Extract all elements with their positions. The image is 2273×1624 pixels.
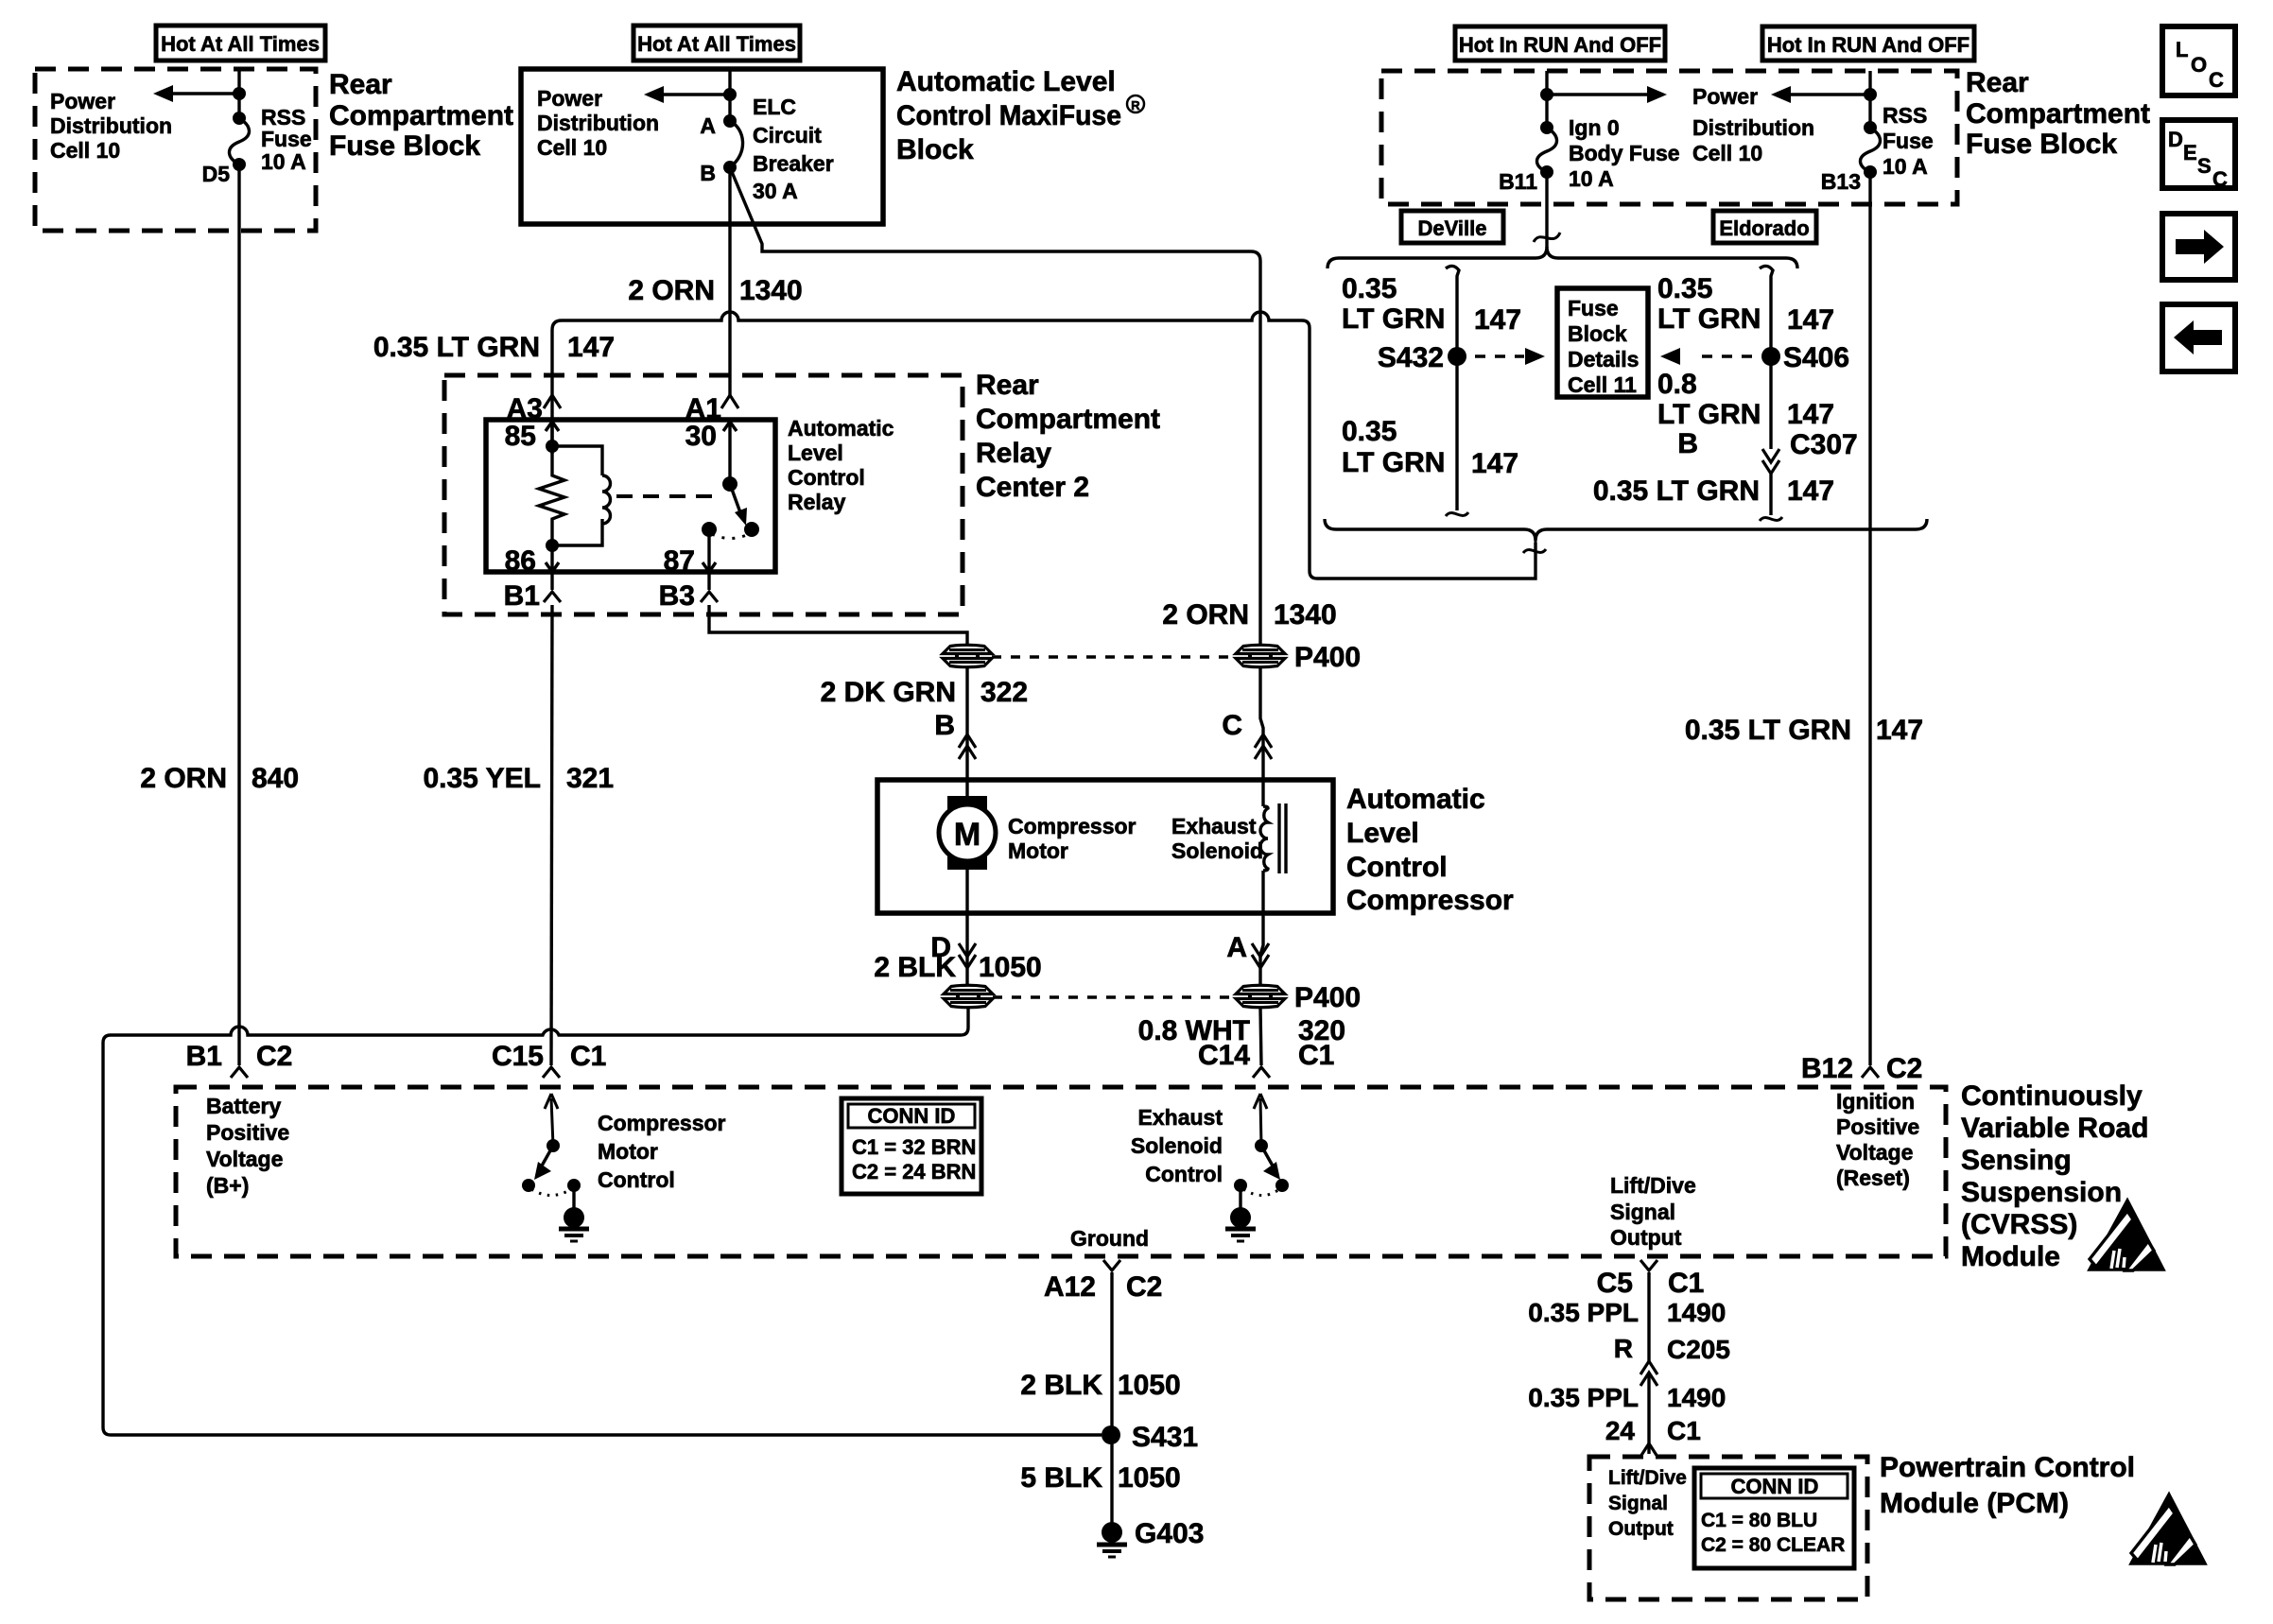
- label box: Eldorado: [1713, 211, 1816, 243]
- svg-text:C1: C1: [1667, 1416, 1701, 1445]
- svg-text:Compressor: Compressor: [1008, 814, 1136, 838]
- svg-text:Rear: Rear: [976, 370, 1039, 401]
- svg-text:S: S: [2197, 154, 2212, 178]
- wire: arrow from B13 to Power Distribution (pointing left): [1788, 93, 1870, 95]
- svg-text:(Reset): (Reset): [1836, 1166, 1910, 1190]
- wire: arrow to Power Distribution (right, pointing right): [1547, 93, 1650, 95]
- svg-text:30: 30: [685, 421, 717, 452]
- svg-text:C2: C2: [256, 1041, 292, 1072]
- svg-text:Level: Level: [1346, 818, 1419, 849]
- svg-text:CONN ID: CONN ID: [1731, 1475, 1819, 1498]
- svg-text:Module (PCM): Module (PCM): [1880, 1488, 2069, 1519]
- svg-text:2 DK GRN: 2 DK GRN: [821, 677, 956, 708]
- svg-text:Breaker: Breaker: [753, 151, 834, 176]
- wire: compressor A to P400: [1260, 913, 1263, 985]
- svg-text:Variable Road: Variable Road: [1961, 1113, 2148, 1144]
- pin A12 / C2 (ground): [1103, 1260, 1120, 1270]
- svg-text:E: E: [2183, 141, 2197, 164]
- svg-text:30 A: 30 A: [753, 179, 798, 203]
- svg-text:B1: B1: [504, 580, 540, 612]
- wire: 0.8 WHT 320 from P400 to CVRSS C14: [1260, 1008, 1261, 1065]
- node: junction dot B11 feed: [1540, 88, 1553, 101]
- svg-text:Automatic Level: Automatic Level: [896, 66, 1116, 97]
- svg-text:147: 147: [1876, 715, 1923, 746]
- dashed arrow S432 to fuse block details: [1475, 354, 1524, 357]
- svg-text:C: C: [1222, 710, 1242, 741]
- svg-text:Output: Output: [1608, 1518, 1674, 1540]
- svg-text:C1 = 80 BLU: C1 = 80 BLU: [1701, 1510, 1817, 1531]
- exhaust solenoid control switch: [1254, 1094, 1267, 1146]
- svg-text:1490: 1490: [1667, 1298, 1726, 1327]
- svg-text:5 BLK: 5 BLK: [1020, 1462, 1102, 1494]
- icon: back arrow box: [2162, 304, 2235, 371]
- svg-text:C205: C205: [1667, 1335, 1730, 1364]
- svg-text:LT GRN: LT GRN: [1342, 447, 1445, 478]
- svg-text:Powertrain Control: Powertrain Control: [1880, 1452, 2135, 1483]
- svg-text:Continuously: Continuously: [1961, 1080, 2143, 1112]
- svg-text:B: B: [934, 710, 955, 741]
- svg-text:Exhaust: Exhaust: [1171, 814, 1257, 838]
- svg-text:Control: Control: [788, 465, 865, 490]
- svg-text:Rear: Rear: [1966, 67, 2029, 98]
- svg-text:D5: D5: [202, 162, 231, 186]
- svg-text:C: C: [2209, 68, 2224, 92]
- dashed connector tie: [992, 655, 1236, 658]
- svg-text:Output: Output: [1610, 1225, 1682, 1250]
- svg-text:(B+): (B+): [206, 1173, 249, 1198]
- svg-text:Cell 11: Cell 11: [1568, 372, 1637, 397]
- node: coil top junction: [546, 440, 559, 453]
- svg-text:Power: Power: [50, 89, 115, 113]
- icon: LOC box: [2162, 26, 2235, 95]
- wire: 2 BLK 1050 to S431: [1110, 1272, 1113, 1435]
- svg-text:B13: B13: [1821, 169, 1861, 194]
- icon: forward arrow box: [2162, 214, 2235, 280]
- wire: DeVille branch 0.35 LT GRN 147: [1446, 266, 1459, 510]
- svg-text:R: R: [1614, 1334, 1633, 1363]
- svg-text:Motor: Motor: [598, 1139, 658, 1164]
- svg-text:M: M: [954, 817, 980, 853]
- label box: DeVille: [1401, 211, 1503, 243]
- svg-text:C2: C2: [1886, 1053, 1922, 1084]
- svg-text:C1: C1: [570, 1041, 606, 1072]
- resistor (relay coil suppression): [539, 446, 564, 545]
- svg-text:C15: C15: [492, 1041, 544, 1072]
- svg-text:87: 87: [664, 545, 695, 577]
- label box: Hot In RUN And OFF (left): [1455, 26, 1665, 60]
- svg-text:147: 147: [1474, 304, 1521, 336]
- svg-text:1490: 1490: [1667, 1383, 1726, 1412]
- svg-text:Relay: Relay: [788, 490, 846, 514]
- wire: 0.35 PPL 1490 to PCM: [1647, 1373, 1650, 1454]
- svg-text:C1: C1: [1668, 1268, 1704, 1299]
- svg-text:C5: C5: [1597, 1268, 1633, 1299]
- node S431: [1102, 1425, 1120, 1444]
- svg-text:C: C: [2212, 167, 2228, 191]
- svg-text:(CVRSS): (CVRSS): [1961, 1209, 2077, 1240]
- svg-text:Distribution: Distribution: [537, 111, 659, 135]
- relay coil: [552, 446, 611, 545]
- Rear Compartment Relay Center 2 dashed box: [444, 375, 963, 614]
- brace: model merge (lower): [1325, 519, 1927, 541]
- svg-text:1050: 1050: [1118, 1370, 1181, 1401]
- svg-text:B1: B1: [186, 1041, 222, 1072]
- wire: P400 to compressor C: [1260, 667, 1263, 780]
- svg-text:Compartment: Compartment: [1966, 98, 2150, 130]
- svg-text:Suspension: Suspension: [1961, 1177, 2122, 1208]
- connector P400 (solenoid feed): [1236, 645, 1285, 667]
- ground (internal, exhaust solenoid control): [1239, 1185, 1241, 1210]
- svg-text:86: 86: [505, 545, 536, 577]
- node: junction dot B13 feed: [1864, 88, 1877, 101]
- wire: 2 ORN 840 from D5 down to CVRSS B1/C2: [237, 164, 240, 1065]
- svg-text:0.35 YEL: 0.35 YEL: [423, 763, 541, 794]
- svg-text:Center 2: Center 2: [976, 472, 1089, 503]
- svg-text:Fuse: Fuse: [261, 127, 312, 151]
- svg-text:840: 840: [252, 763, 299, 794]
- svg-text:321: 321: [566, 763, 614, 794]
- svg-text:147: 147: [567, 332, 615, 363]
- wire: feed into RSS fuse from top: [237, 69, 240, 118]
- svg-text:Voltage: Voltage: [1836, 1140, 1913, 1165]
- relay: Automatic Level Control Relay box: [486, 420, 775, 572]
- svg-text:0.35: 0.35: [1657, 273, 1712, 304]
- wire: 2 ORN 1340 from breaker B down to relay A1: [728, 167, 731, 397]
- wire: feed into RSS fuse (right): [1868, 71, 1871, 128]
- dashed actuation link: [616, 494, 716, 498]
- svg-text:Battery: Battery: [206, 1094, 281, 1118]
- svg-text:Automatic: Automatic: [1346, 784, 1485, 815]
- svg-text:1050: 1050: [979, 952, 1042, 983]
- wire: arrow to Power Distribution (middle): [661, 93, 730, 95]
- svg-text:C2 = 24 BRN: C2 = 24 BRN: [852, 1160, 976, 1183]
- svg-text:A: A: [700, 113, 716, 138]
- svg-text:A: A: [1226, 932, 1247, 963]
- svg-text:147: 147: [1471, 448, 1518, 479]
- wire: feed into ELC breaker: [728, 69, 731, 121]
- svg-text:322: 322: [980, 677, 1028, 708]
- svg-text:1340: 1340: [1274, 599, 1337, 631]
- svg-text:A12: A12: [1044, 1271, 1096, 1303]
- svg-text:Block: Block: [896, 134, 974, 165]
- svg-text:S431: S431: [1132, 1422, 1198, 1453]
- wire: 0.35 LT GRN 147 from B13 RSS fuse down to CVRSS B12: [1868, 172, 1871, 1065]
- svg-text:Sensing: Sensing: [1961, 1145, 2072, 1176]
- svg-text:Power: Power: [537, 86, 602, 111]
- svg-text:Control MaxiFuse: Control MaxiFuse: [896, 100, 1121, 131]
- svg-text:B: B: [1677, 428, 1698, 459]
- Automatic Level Control Compressor box: [877, 780, 1333, 913]
- svg-text:Level: Level: [788, 441, 843, 465]
- svg-text:Cell 10: Cell 10: [537, 135, 607, 160]
- svg-text:C2 = 80 CLEAR: C2 = 80 CLEAR: [1701, 1534, 1845, 1556]
- svg-text:Positive: Positive: [206, 1120, 289, 1145]
- fuse: RSS Fuse 10 A (right fuse block): [1864, 121, 1877, 134]
- svg-text:Body Fuse: Body Fuse: [1569, 141, 1680, 165]
- svg-text:G403: G403: [1135, 1518, 1204, 1549]
- label box: Hot At All Times (left): [156, 26, 325, 60]
- svg-text:C14: C14: [1198, 1040, 1250, 1071]
- wire: 2 DK GRN 322 from relay B3 to P400: [709, 605, 967, 646]
- svg-text:ELC: ELC: [753, 95, 796, 119]
- rear compartment fuse block dashed box (right): [1381, 71, 1957, 204]
- svg-text:LT GRN: LT GRN: [1342, 303, 1445, 335]
- fuse: RSS Fuse 10 A (left fuse block): [233, 112, 246, 125]
- svg-text:10 A: 10 A: [1569, 166, 1614, 191]
- svg-text:Motor: Motor: [1008, 838, 1068, 863]
- ESD symbol (PCM): [2131, 1494, 2205, 1564]
- svg-text:P400: P400: [1294, 982, 1361, 1013]
- svg-text:Circuit: Circuit: [753, 123, 822, 147]
- label box: Hot At All Times (middle): [633, 26, 800, 60]
- svg-text:LT GRN: LT GRN: [1657, 399, 1761, 430]
- svg-text:LT GRN: LT GRN: [1657, 303, 1761, 335]
- svg-text:RSS: RSS: [1883, 103, 1927, 128]
- svg-text:Positive: Positive: [1836, 1114, 1919, 1139]
- svg-text:Control: Control: [1145, 1162, 1223, 1186]
- svg-text:147: 147: [1787, 475, 1834, 507]
- svg-text:B: B: [700, 161, 716, 185]
- svg-text:Automatic: Automatic: [788, 416, 894, 441]
- svg-text:Compartment: Compartment: [329, 100, 513, 131]
- svg-text:0.8: 0.8: [1657, 369, 1697, 400]
- exhaust solenoid coil: [1261, 780, 1264, 806]
- wire: 2 BLK 1050 ground loop to S431: [103, 1008, 1102, 1435]
- svg-text:Module: Module: [1961, 1241, 2060, 1272]
- svg-text:0.35 LT GRN: 0.35 LT GRN: [373, 332, 540, 363]
- svg-text:D: D: [2168, 128, 2183, 151]
- svg-text:Control: Control: [598, 1167, 675, 1192]
- svg-text:Signal: Signal: [1608, 1493, 1668, 1514]
- svg-text:Hot At All Times: Hot At All Times: [637, 32, 796, 56]
- svg-text:Rear: Rear: [329, 69, 392, 100]
- ALC MaxiFuse block solid box: [521, 69, 883, 224]
- svg-text:C2: C2: [1126, 1271, 1162, 1303]
- wire: 5 BLK 1050 to G403: [1110, 1435, 1113, 1526]
- ground (internal, compressor motor control): [572, 1185, 575, 1210]
- wire: feed into Ign 0 fuse: [1545, 71, 1548, 128]
- svg-text:DeVille: DeVille: [1418, 216, 1487, 240]
- svg-text:Cell 10: Cell 10: [1692, 141, 1762, 165]
- svg-text:Cell 10: Cell 10: [50, 138, 120, 163]
- svg-text:L: L: [2176, 38, 2188, 61]
- svg-text:Fuse Block: Fuse Block: [329, 130, 480, 162]
- svg-text:Distribution: Distribution: [50, 113, 172, 138]
- svg-text:1050: 1050: [1118, 1462, 1181, 1494]
- node: junction dot: [723, 88, 737, 101]
- pin C5 / C1: [1640, 1260, 1657, 1270]
- compressor motor control switch: [545, 1094, 558, 1146]
- svg-text:Ign 0: Ign 0: [1569, 115, 1620, 140]
- svg-text:Exhaust: Exhaust: [1138, 1105, 1223, 1130]
- svg-text:0.35: 0.35: [1342, 416, 1397, 447]
- svg-text:0.35 PPL: 0.35 PPL: [1528, 1383, 1639, 1412]
- node S432: [1448, 347, 1466, 366]
- svg-text:C1 = 32 BRN: C1 = 32 BRN: [852, 1135, 976, 1159]
- CVRSS module dashed box: [176, 1087, 1946, 1256]
- svg-text:Relay: Relay: [976, 438, 1051, 469]
- svg-text:10 A: 10 A: [1883, 154, 1928, 179]
- svg-text:0.35 LT GRN: 0.35 LT GRN: [1593, 475, 1760, 507]
- fuse: Ign 0 Body Fuse 10 A: [1540, 121, 1553, 134]
- svg-text:Distribution: Distribution: [1692, 115, 1814, 140]
- ESD symbol (CVRSS): [2090, 1201, 2163, 1270]
- svg-text:B3: B3: [659, 580, 695, 612]
- svg-text:2 BLK: 2 BLK: [1020, 1370, 1102, 1401]
- node: junction dot on D5 feed: [233, 87, 246, 100]
- box: CONN ID (CVRSS): [842, 1098, 981, 1194]
- svg-text:Fuse: Fuse: [1568, 296, 1619, 320]
- svg-text:85: 85: [505, 421, 536, 452]
- svg-text:Ground: Ground: [1070, 1226, 1149, 1251]
- svg-text:24: 24: [1605, 1416, 1636, 1445]
- svg-text:C1: C1: [1298, 1040, 1334, 1071]
- svg-text:Solenoid: Solenoid: [1131, 1133, 1223, 1158]
- svg-text:Lift/Dive: Lift/Dive: [1610, 1173, 1696, 1198]
- rear compartment fuse block dashed box (left): [35, 69, 316, 231]
- svg-text:1340: 1340: [739, 275, 803, 306]
- wire: arrow to Power Distribution (left): [170, 92, 239, 95]
- dashed connector tie: [993, 995, 1236, 998]
- svg-text:Signal: Signal: [1610, 1200, 1675, 1224]
- svg-text:R: R: [1131, 98, 1140, 112]
- wire: A3 drop: [550, 330, 553, 454]
- svg-text:147: 147: [1787, 304, 1834, 336]
- svg-text:P400: P400: [1294, 642, 1361, 673]
- svg-text:Solenoid: Solenoid: [1171, 838, 1263, 863]
- svg-text:Fuse Block: Fuse Block: [1966, 129, 2117, 160]
- svg-text:Hot At All Times: Hot At All Times: [161, 32, 320, 56]
- connector P400 (motor feed): [943, 645, 992, 667]
- box: CONN ID (PCM): [1694, 1468, 1854, 1568]
- svg-text:O: O: [2191, 53, 2207, 77]
- svg-text:Voltage: Voltage: [206, 1147, 283, 1171]
- svg-text:Lift/Dive: Lift/Dive: [1608, 1467, 1687, 1489]
- svg-text:Control: Control: [1346, 852, 1448, 883]
- svg-text:C307: C307: [1790, 429, 1858, 460]
- ground G403: [1102, 1522, 1122, 1543]
- wire: 0.35 PPL 1490 to C205: [1647, 1272, 1650, 1361]
- svg-text:CONN ID: CONN ID: [868, 1104, 956, 1128]
- wire: B11 drop to brace: [1545, 172, 1548, 248]
- wire below C307: [1769, 474, 1772, 515]
- circuit breaker: ELC Circuit Breaker 30 A: [723, 114, 737, 128]
- node S406: [1761, 347, 1780, 366]
- wire: compressor D to P400: [965, 870, 968, 985]
- svg-text:Compartment: Compartment: [976, 404, 1160, 435]
- box: Fuse Block Details Cell 11: [1557, 288, 1648, 397]
- relay switch (30 to 87): [722, 476, 737, 492]
- svg-text:2 BLK: 2 BLK: [874, 952, 956, 983]
- dashed arrow S406 to fuse block details: [1702, 354, 1753, 357]
- wire: branch from breaker B to compressor solenoid feed: [730, 167, 1260, 644]
- wire: 0.35 LT GRN 147 return from brace to relay A3: [552, 312, 1536, 579]
- svg-text:Details: Details: [1568, 347, 1639, 371]
- svg-text:S432: S432: [1378, 342, 1444, 373]
- svg-text:0.35: 0.35: [1342, 273, 1397, 304]
- svg-text:0.35 PPL: 0.35 PPL: [1528, 1298, 1639, 1327]
- wire: P400 to compressor B: [965, 667, 968, 780]
- PCM dashed box: [1589, 1457, 1867, 1599]
- svg-text:Ignition: Ignition: [1836, 1089, 1915, 1114]
- brace: model split (upper): [1327, 247, 1797, 268]
- node: coil bottom junction: [546, 539, 559, 552]
- svg-text:Hot In RUN And OFF: Hot In RUN And OFF: [1459, 33, 1661, 57]
- label box: Hot In RUN And OFF (right): [1762, 26, 1974, 60]
- svg-text:Power: Power: [1692, 84, 1758, 109]
- svg-text:Compressor: Compressor: [1346, 885, 1514, 916]
- svg-text:B12: B12: [1801, 1053, 1853, 1084]
- icon: DESC box: [2162, 120, 2235, 188]
- svg-text:10 A: 10 A: [261, 149, 306, 174]
- wire: 0.35 YEL 321 from relay B1 to CVRSS C15: [551, 605, 552, 1065]
- svg-text:Compressor: Compressor: [598, 1111, 726, 1135]
- svg-text:Hot In RUN And OFF: Hot In RUN And OFF: [1767, 33, 1969, 57]
- connector P400 (motor ground): [944, 985, 993, 1008]
- connector P400 (solenoid return): [1236, 985, 1285, 1008]
- svg-text:2 ORN: 2 ORN: [1162, 599, 1249, 631]
- wire: brace output stub: [1523, 541, 1546, 579]
- svg-text:2 ORN: 2 ORN: [140, 763, 227, 794]
- svg-text:S406: S406: [1783, 342, 1849, 373]
- svg-text:Eldorado: Eldorado: [1719, 216, 1809, 240]
- svg-text:147: 147: [1787, 399, 1834, 430]
- wire break tilde: [1534, 233, 1560, 242]
- svg-text:2 ORN: 2 ORN: [628, 275, 715, 306]
- svg-text:Fuse: Fuse: [1883, 129, 1934, 153]
- svg-text:Block: Block: [1568, 321, 1627, 346]
- compressor motor M: [965, 780, 968, 804]
- svg-text:0.35 LT GRN: 0.35 LT GRN: [1685, 715, 1851, 746]
- wire: Eldorado branch: [1760, 266, 1773, 449]
- svg-text:B11: B11: [1499, 169, 1537, 194]
